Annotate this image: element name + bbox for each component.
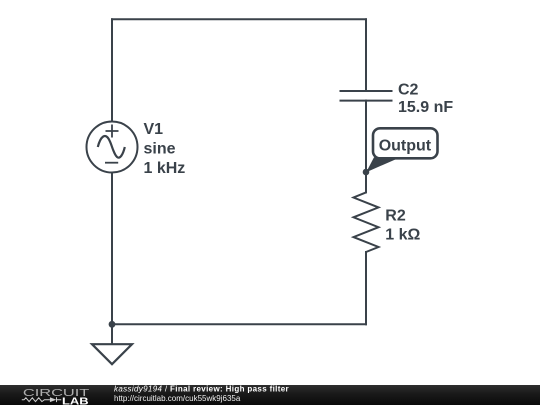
svg-text:C2: C2 <box>398 82 419 99</box>
wire R2 bottom lead <box>365 252 367 324</box>
flag Output pointer <box>366 157 400 172</box>
V1 body circle <box>87 122 138 173</box>
V1 sine waveform <box>98 136 125 158</box>
V1 minus mark <box>105 162 118 164</box>
svg-text:Output: Output <box>379 138 432 155</box>
svg-text:kassidy9194 / Final review: Hi: kassidy9194 / Final review: High pass fi… <box>114 385 289 394</box>
junction dot ground node <box>109 321 116 328</box>
wire C2 top lead <box>365 19 367 91</box>
svg-text:1 kHz: 1 kHz <box>144 160 186 177</box>
V1 plus mark <box>106 125 119 138</box>
wire top (V1 top to C2 top) <box>112 18 366 20</box>
svg-text:LAB: LAB <box>62 396 89 405</box>
svg-text:R2: R2 <box>385 208 406 225</box>
svg-text:1 kΩ: 1 kΩ <box>385 226 420 243</box>
wire ground stem <box>111 324 113 344</box>
wire V1 top lead <box>111 19 113 121</box>
svg-text:sine: sine <box>144 141 176 158</box>
C2 bottom plate <box>340 100 393 102</box>
wire V1 bottom lead <box>111 173 113 325</box>
svg-text:15.9 nF: 15.9 nF <box>398 99 453 116</box>
wire bottom (ground node to R2 bottom) <box>112 323 366 325</box>
CircuitLab logo wire doodle (resistor + diode) <box>22 397 61 402</box>
svg-text:V1: V1 <box>144 121 164 138</box>
ground symbol <box>92 344 132 364</box>
flag Output box <box>373 128 438 158</box>
resistor R2 zigzag <box>354 192 379 252</box>
C2 top plate <box>340 90 393 92</box>
capacitor C2 <box>340 91 393 101</box>
wire C2 to R2 (through Output node) <box>365 101 367 193</box>
svg-text:http://circuitlab.com/cuk55wk9: http://circuitlab.com/cuk55wk9j635a <box>114 394 241 403</box>
node Output junction dot <box>363 169 370 176</box>
voltage source V1 <box>87 122 138 173</box>
